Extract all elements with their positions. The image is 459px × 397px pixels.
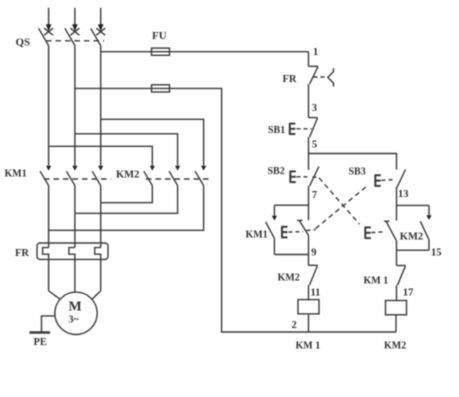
- FR thermal release hook: [328, 68, 334, 86]
- wire KM2 pole1 crossover to line 3: [101, 186, 153, 203]
- svg-text:KM 1: KM 1: [296, 341, 321, 352]
- control wire node1 corner down to FR contact: [308, 52, 310, 67]
- SB3 NC contact in left branch: [297, 220, 309, 235]
- svg-text:15: 15: [431, 248, 442, 259]
- SB2 NC actuator dashes: [372, 231, 385, 234]
- wire KM2 coil to bottom rail: [395, 315, 397, 332]
- FR heater element line 1: [43, 248, 49, 291]
- svg-text:FU: FU: [152, 30, 167, 42]
- contactor coil KM2: [386, 301, 407, 315]
- start button SB3 (NO): [397, 170, 406, 188]
- FR contact actuator dashes: [314, 76, 328, 78]
- SB3 link dashes from left NC up to SB3 (crossing): [307, 186, 368, 231]
- wire L3 tap to KM2 pole 3: [101, 119, 204, 165]
- SB2 NC contact in right branch: [384, 221, 397, 241]
- SB2 link dashes to right branch (crossing): [313, 177, 360, 224]
- wire node 9 to KM2 NC: [308, 235, 310, 265]
- svg-text:KM2: KM2: [278, 273, 300, 284]
- svg-text:KM1: KM1: [5, 169, 27, 180]
- wire node 17: [396, 285, 398, 300]
- stop button SB1 (NC): [309, 118, 318, 138]
- svg-text:9: 9: [311, 248, 316, 259]
- svg-text:1: 1: [313, 47, 318, 58]
- svg-text:QS: QS: [16, 37, 31, 49]
- svg-text:M: M: [69, 300, 82, 315]
- svg-text:11: 11: [311, 287, 321, 298]
- contactor KM2 main contact pole 3: [195, 166, 206, 186]
- contactor KM1 main contact pole 3: [92, 166, 103, 186]
- contactor KM2 main contact pole 2: [169, 166, 180, 186]
- SB3 actuator E symbol: [375, 174, 381, 186]
- fuse FU1: [152, 48, 170, 55]
- wire node 3: [308, 84, 310, 117]
- KM1 main contacts mechanical link (dashed): [44, 178, 111, 180]
- fuse FU2: [152, 85, 170, 92]
- wire KM2 aux rejoin node 15: [397, 249, 430, 251]
- wire L2 tap to KM2 pole 2: [75, 134, 178, 166]
- wire line3 into motor: [92, 291, 101, 300]
- phase L3 supply stub with arrow: [98, 8, 104, 32]
- FR NC contact (control): [309, 66, 319, 84]
- wire phase L1 vertical QS to KM1 contact: [48, 46, 50, 166]
- svg-text:5: 5: [312, 140, 317, 151]
- contactor coil KM1: [298, 300, 319, 314]
- wire line1 into motor: [49, 291, 61, 300]
- SB3 NC actuator E symbol (left): [282, 226, 288, 238]
- SB1 actuator E symbol: [290, 123, 296, 135]
- KM2 NC interlock contact: [309, 265, 318, 285]
- svg-text:17: 17: [403, 288, 414, 299]
- wire fuse FU1 to node 1: [170, 51, 309, 53]
- phase L2 supply stub with arrow: [72, 8, 78, 32]
- wire KM1 aux rejoin node 9: [274, 254, 308, 256]
- KM1 NC interlock contact: [397, 266, 406, 286]
- wire L1 tap to KM2 pole 1: [49, 146, 153, 165]
- wire L3 to fuse FU1: [101, 51, 152, 53]
- wire node 15 to KM1 NC: [396, 241, 398, 266]
- wire L2 to fuse FU2: [75, 87, 152, 89]
- SB2 NC actuator E symbol (right): [365, 227, 371, 239]
- wire KM2 pole2 crossover to line 2: [75, 186, 178, 214]
- FR heater element line 3: [95, 248, 101, 291]
- SB2 actuator dashes: [297, 176, 309, 178]
- wire KM1 coil to node 2 rail: [308, 315, 310, 332]
- PE earth connection wire: [42, 316, 55, 333]
- svg-text:KM 1: KM 1: [364, 276, 389, 287]
- SB3 NC actuator dashes: [289, 231, 304, 234]
- KM2 auxiliary NO contact (self hold): [420, 205, 431, 250]
- start button SB2 (NO): [310, 166, 319, 186]
- contactor KM1 main contact pole 2: [66, 166, 77, 186]
- thermal relay FR enclosure: [37, 243, 108, 259]
- disconnect switch QS pole 3: [91, 28, 106, 45]
- svg-text:FR: FR: [283, 74, 297, 85]
- wire fuse FU2 to control bottom rail: [170, 88, 397, 332]
- svg-text:7: 7: [312, 190, 317, 201]
- wire line1 KM1 to FR heater: [48, 186, 50, 248]
- svg-text:SB2: SB2: [268, 166, 285, 177]
- SB1 actuator dashes: [297, 128, 312, 130]
- svg-text:FR: FR: [15, 248, 29, 259]
- svg-text:13: 13: [398, 189, 409, 200]
- svg-text:3: 3: [312, 103, 317, 114]
- motor M 3~: [55, 292, 97, 334]
- svg-text:PE: PE: [34, 337, 47, 348]
- svg-text:SB3: SB3: [349, 167, 366, 178]
- KM1 auxiliary NO contact (self hold): [266, 205, 277, 254]
- SB2 actuator E symbol: [290, 171, 296, 183]
- svg-text:KM1: KM1: [246, 230, 268, 241]
- wire phase L2 vertical QS to KM1 contact: [74, 46, 76, 166]
- contactor KM2 main contact pole 1: [144, 166, 155, 186]
- QS mechanical link (dashed): [46, 40, 104, 42]
- wire node 11: [308, 285, 310, 301]
- svg-text:SB1: SB1: [268, 125, 285, 136]
- wire line2 KM1 to FR heater: [74, 186, 76, 248]
- svg-text:KM2: KM2: [400, 232, 423, 243]
- svg-text:KM2: KM2: [384, 341, 406, 352]
- wire line3 KM1 to FR heater: [100, 186, 102, 248]
- phase L1 supply stub with arrow: [46, 8, 52, 32]
- PE earth bar: [30, 331, 51, 334]
- wire node 5: [308, 137, 310, 170]
- svg-text:2: 2: [292, 320, 297, 331]
- disconnect switch QS pole 2: [65, 28, 80, 45]
- FR heater element line 2: [69, 248, 75, 293]
- wire KM2 pole3 crossover to line 1: [49, 186, 204, 231]
- wire node7 branch to KM1 aux: [274, 204, 308, 206]
- svg-text:3~: 3~: [69, 315, 80, 326]
- wire node 13: [396, 187, 398, 221]
- wire node5 branch to SB3: [309, 154, 397, 170]
- wire node 7: [308, 186, 310, 220]
- svg-text:KM2: KM2: [116, 170, 139, 181]
- wire node13 branch to KM2 aux: [397, 204, 430, 206]
- SB3 actuator dashes: [382, 179, 396, 182]
- KM2 main contacts mechanical link (dashed): [146, 178, 210, 180]
- disconnect switch QS pole 1: [39, 28, 54, 45]
- wire phase L3 vertical QS to KM1 contact: [100, 46, 102, 166]
- contactor KM1 main contact pole 1: [40, 166, 51, 186]
